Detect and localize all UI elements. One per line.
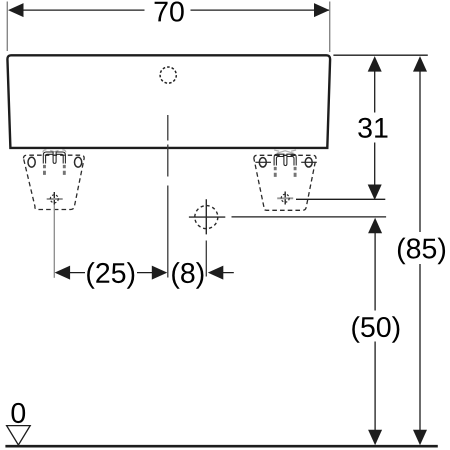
left fastening bracket dashed outline: [24, 155, 85, 209]
left bracket centerline extension: [53, 205, 55, 278]
dimension 31 label: [358, 118, 387, 138]
dimension 50 arrow up: [368, 218, 382, 234]
left bracket slot hole right: [75, 157, 82, 167]
left bracket slot hole left: [28, 157, 35, 167]
right bracket slot hole right crosshair: [301, 161, 317, 163]
dimension 70 label: [155, 2, 184, 22]
left clip prong dashes: [44, 165, 64, 175]
dimension 70 arrow left: [8, 3, 24, 17]
right bracket slot hole right: [305, 158, 312, 167]
left bracket screw dashed circle: [50, 195, 58, 203]
dimension 50 line: [374, 233, 376, 432]
dimension 70 extension line left: [6, 2, 8, 52]
dimension 70 extension line right: [329, 2, 331, 53]
dimension 8 arrow: [208, 266, 224, 280]
left bracket screw crosshair horizontal gray: [47, 198, 63, 200]
dimension 25 arrow left: [55, 266, 71, 280]
dimension 85 line: [419, 71, 421, 432]
floor line: [5, 445, 437, 448]
dimension 85 arrow down: [413, 430, 427, 446]
dimension 25 arrow right: [152, 266, 168, 280]
dimension 50 arrow down: [368, 430, 382, 446]
dimension 31 arrow up: [368, 56, 382, 72]
dimension 85 label: [398, 238, 445, 265]
overflow dashed circle: [160, 67, 176, 83]
right bracket screw crosshair horizontal gray: [277, 197, 293, 199]
tap height line: [232, 216, 387, 218]
extension line basin top right: [333, 54, 427, 56]
dimension 31 arrow down: [368, 185, 382, 201]
right clip prong dashes: [275, 167, 295, 177]
dimension 85 arrow up: [413, 56, 427, 72]
bracket screw height line: [296, 198, 385, 200]
right clip top bar: [274, 154, 296, 165]
dimension 70 arrow right: [314, 3, 330, 17]
left clip hidden gray hooks: [43, 150, 66, 152]
dimension 50 label: [352, 316, 399, 343]
basin centerline: [167, 115, 169, 278]
right bracket slot hole left: [259, 158, 266, 167]
floor datum label 0: [11, 403, 25, 423]
dimension 25-8 line: [69, 272, 234, 274]
right clip hidden gray wings: [274, 150, 296, 153]
dimension 70 line: [22, 9, 329, 11]
floor datum triangle: [7, 426, 31, 445]
left clip top bar: [43, 152, 65, 164]
right bracket screw dashed circle: [281, 194, 289, 202]
right fastening bracket dashed outline: [254, 155, 316, 210]
right bracket slot hole left crosshair: [255, 161, 271, 163]
right bracket screw crosshair vertical: [284, 192, 286, 205]
left bracket screw crosshair vertical: [53, 192, 55, 205]
tap hole centerline lower: [205, 241, 207, 277]
dimension 8 label: [172, 262, 203, 289]
washbasin outline: [7, 55, 330, 148]
tap hole crosshair: [189, 199, 225, 234]
dimension 31 line: [374, 71, 376, 186]
tap hole dashed circle: [195, 206, 218, 229]
dimension 25 label: [87, 262, 134, 289]
